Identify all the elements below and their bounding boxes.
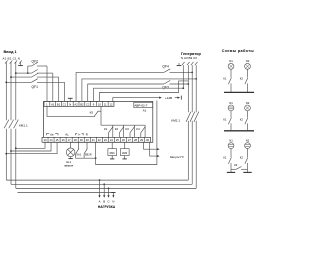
switch SB1 (84, 142, 92, 158)
scheme 1: contact К2 (240, 69, 248, 92)
breaker QF2 pole 2 (15, 70, 53, 75)
svg-text:14: 14 (50, 138, 53, 142)
node Ввод 1 label (3, 49, 21, 61)
svg-text:К1: К1 (223, 118, 227, 122)
wire load drop B (103, 183, 105, 197)
wire generator N vertical (182, 65, 184, 88)
svg-text:26: 26 (122, 138, 125, 142)
contactor coil КМ1 (108, 142, 117, 159)
wire internal rail (101, 124, 145, 126)
terminal row bottom (13..30) (42, 137, 151, 142)
svg-text:К2: К2 (240, 156, 244, 160)
svg-text:К2: К2 (240, 118, 244, 122)
svg-text:В: В (103, 200, 105, 204)
svg-text:Uв: Uв (50, 133, 54, 137)
svg-text:12: 12 (110, 102, 113, 106)
wire load drop N (bar) (111, 193, 115, 198)
wire load bus B (11, 183, 192, 185)
wire terminal А2 to QF4 / В3 (76, 69, 193, 102)
scheme 3: end bar N2 branch (243, 171, 251, 173)
terminal marks Ввод 1 (A1 B1 C1 N) (5, 60, 22, 63)
node Схемы работы title (222, 49, 254, 53)
wire terminal 15 to A1 (5, 142, 57, 154)
svg-text:В2: В2 (80, 102, 84, 106)
svg-text:N2: N2 (246, 101, 250, 105)
wire phase B1 vertical (10, 62, 12, 184)
scheme 3: lamp N2 (245, 139, 251, 149)
label AL (65, 133, 69, 137)
svg-text:С2: С2 (86, 102, 90, 106)
wire terminal 22 loop (96, 101, 157, 165)
svg-text:21: 21 (92, 138, 95, 142)
svg-text:N1: N1 (229, 139, 233, 143)
scheme 1: lamp N1 (228, 59, 234, 69)
wire load bus A (6, 179, 188, 181)
wire К5 riser to rail (100, 106, 102, 125)
contactor coil КМ2 (120, 142, 129, 159)
breaker QF1 pole 2 (5, 79, 64, 84)
wire terminal В2 to С3 (82, 78, 197, 102)
node N stub above device (bar) (68, 98, 73, 101)
wire phase А3 vertical (187, 65, 189, 180)
designator А1 (143, 109, 147, 113)
svg-text:N А3 В3 С3: N А3 В3 С3 (181, 56, 197, 60)
scheme 2: lamp N1 (228, 101, 234, 111)
wire load drop C (107, 188, 109, 198)
svg-text:R: R (86, 133, 88, 137)
svg-text:SB1R: SB1R (85, 152, 92, 156)
breaker QF2 pole 1 (28, 62, 47, 66)
contactor contacts КМ1.1 (4, 120, 28, 129)
wire load bus C (16, 187, 196, 189)
svg-text:А: А (99, 200, 101, 204)
wire load drop A (98, 179, 100, 198)
svg-text:10: 10 (98, 102, 101, 106)
svg-text:К5: К5 (90, 111, 94, 115)
breaker QF1 label (32, 85, 39, 89)
svg-text:N2: N2 (246, 139, 250, 143)
wire start output terminal 29 (144, 142, 160, 150)
wire QF1 pole1 to terminal В1 (58, 77, 60, 101)
svg-text:К3: К3 (126, 127, 130, 131)
svg-text:НАГРУЗКА: НАГРУЗКА (98, 205, 116, 209)
svg-text:С1: С1 (63, 102, 67, 106)
wire terminal 9 to generator N (94, 87, 185, 101)
scheme 2: bus bar (224, 130, 254, 132)
svg-text:КМ2.1: КМ2.1 (171, 119, 180, 123)
node Генератор label (181, 51, 201, 60)
svg-text:КМ2: КМ2 (122, 151, 128, 155)
wire phase A1 vertical (5, 62, 7, 180)
wire QF2 pole2 to terminal А1 (52, 73, 54, 101)
wire phase В3 vertical (191, 65, 193, 184)
svg-text:23: 23 (104, 138, 107, 142)
svg-text:I>: I> (78, 133, 81, 137)
wire QF2 feed from C1 (27, 66, 29, 74)
svg-text:К1: К1 (223, 76, 227, 80)
label Запуск ГУ (170, 155, 184, 159)
svg-text:AL: AL (65, 133, 69, 137)
wire terminal 10 riser (99, 81, 188, 102)
scheme 2: lamp N2 (245, 101, 251, 111)
svg-text:КМ1: КМ1 (110, 151, 116, 155)
svg-text:АВР-02-Г: АВР-02-Г (134, 104, 147, 108)
svg-text:11: 11 (104, 102, 107, 106)
svg-text:29: 29 (140, 138, 143, 142)
node generator N stub (bar) (177, 63, 182, 66)
svg-text:28: 28 (134, 138, 137, 142)
svg-text:КМ1.1: КМ1.1 (19, 123, 28, 127)
svg-text:19: 19 (80, 138, 83, 142)
scheme 2: contact К1 (223, 111, 231, 131)
wire terminal С2 to QF3 / А3 (88, 80, 189, 101)
svg-text:N: N (69, 102, 71, 106)
lamp HL1 авария (64, 142, 75, 167)
label Uв (47, 133, 59, 137)
switch SA1 (76, 142, 82, 158)
svg-text:N2: N2 (246, 59, 250, 63)
svg-text:30: 30 (146, 138, 149, 142)
svg-text:16: 16 (62, 138, 65, 142)
terminal marks Генератор (182, 62, 198, 65)
svg-text:13: 13 (44, 138, 47, 142)
svg-text:27: 27 (128, 138, 131, 142)
wire QF1 pole2 to terminal С1 (64, 82, 66, 101)
svg-text:К2: К2 (240, 76, 244, 80)
svg-text:А1: А1 (51, 102, 55, 106)
relay contact К4 (136, 125, 145, 137)
svg-text:авария: авария (64, 164, 73, 167)
relay contact К3 (126, 125, 135, 137)
svg-text:18: 18 (74, 138, 77, 142)
svg-text:SA1: SA1 (76, 152, 81, 156)
scheme 3: lamp N1 (228, 139, 234, 149)
svg-text:N1: N1 (229, 59, 233, 63)
svg-text:N: N (112, 200, 114, 204)
relay contact К1 (104, 125, 113, 137)
svg-text:25: 25 (116, 138, 119, 142)
breaker QF1 pole 1 (10, 74, 59, 79)
scheme 3: contact К2 (240, 148, 248, 172)
scheme 1: bus bar (224, 91, 254, 93)
wire start output terminal 30 (150, 142, 160, 157)
svg-text:К1: К1 (104, 127, 108, 131)
svg-text:Запуск ГУ: Запуск ГУ (170, 155, 184, 159)
relay contact К5 (47, 106, 101, 116)
label I> (76, 133, 84, 137)
svg-text:17: 17 (68, 138, 71, 142)
svg-text:А2: А2 (74, 102, 78, 106)
scheme 2: contact К2 (240, 111, 248, 131)
svg-text:24: 24 (110, 138, 113, 142)
svg-text:К2: К2 (115, 127, 119, 131)
breaker QF3 label (162, 86, 169, 90)
svg-text:К3: К3 (234, 163, 238, 167)
wire phase С3 vertical (195, 65, 197, 188)
relay contact К2 (115, 125, 124, 137)
wire +12В from terminal 12 (113, 96, 182, 102)
breaker QF2 label (32, 60, 39, 64)
breaker QF4 label (162, 65, 169, 69)
svg-text:+12В: +12В (165, 96, 172, 100)
svg-text:А1: А1 (143, 109, 147, 113)
label А В С N (99, 200, 115, 204)
svg-text:QF3: QF3 (162, 86, 169, 90)
svg-text:15: 15 (56, 138, 59, 142)
wire terminal 13 to C1 (15, 142, 45, 149)
svg-text:А1 В1 С1 N: А1 В1 С1 N (3, 56, 21, 60)
contactor contacts КМ2.1 (171, 112, 199, 123)
svg-text:К4: К4 (136, 127, 140, 131)
scheme 3: contact К3 horizontal (231, 163, 248, 169)
label НАГРУЗКА (98, 205, 116, 209)
node N of Ввод 1 (stub with bar) (18, 62, 23, 66)
terminal row top (1 А1 В1 С1 N А2 В2 С2 9 10 11 12) (44, 102, 114, 107)
svg-text:Ввод 1: Ввод 1 (4, 49, 18, 54)
scheme 3: contact К1 (223, 148, 231, 172)
scheme 1: lamp N2 (245, 59, 251, 69)
wire SA1/SB1 common (76, 157, 97, 159)
svg-text:20: 20 (86, 138, 89, 142)
label box АВР-02-Г (134, 102, 153, 107)
label R (86, 133, 88, 137)
wire terminal 14 to B1 (10, 142, 51, 152)
svg-text:QF1: QF1 (32, 85, 39, 89)
wire phase C1 vertical (15, 62, 17, 188)
device box АВР-02-Г outline (44, 102, 153, 143)
svg-text:22: 22 (98, 138, 101, 142)
svg-text:QF4: QF4 (162, 65, 169, 69)
scheme 1: contact К1 (223, 69, 231, 92)
svg-text:Схемы работы: Схемы работы (222, 49, 254, 53)
wire load bus N (18, 192, 114, 194)
svg-text:N1: N1 (229, 101, 233, 105)
wire QF2 pole1 to terminal 1 (46, 66, 48, 102)
scheme 3: end bar N1 branch (227, 171, 235, 173)
svg-text:В1: В1 (57, 102, 61, 106)
svg-text:К1: К1 (223, 156, 227, 160)
svg-text:С: С (107, 200, 109, 204)
